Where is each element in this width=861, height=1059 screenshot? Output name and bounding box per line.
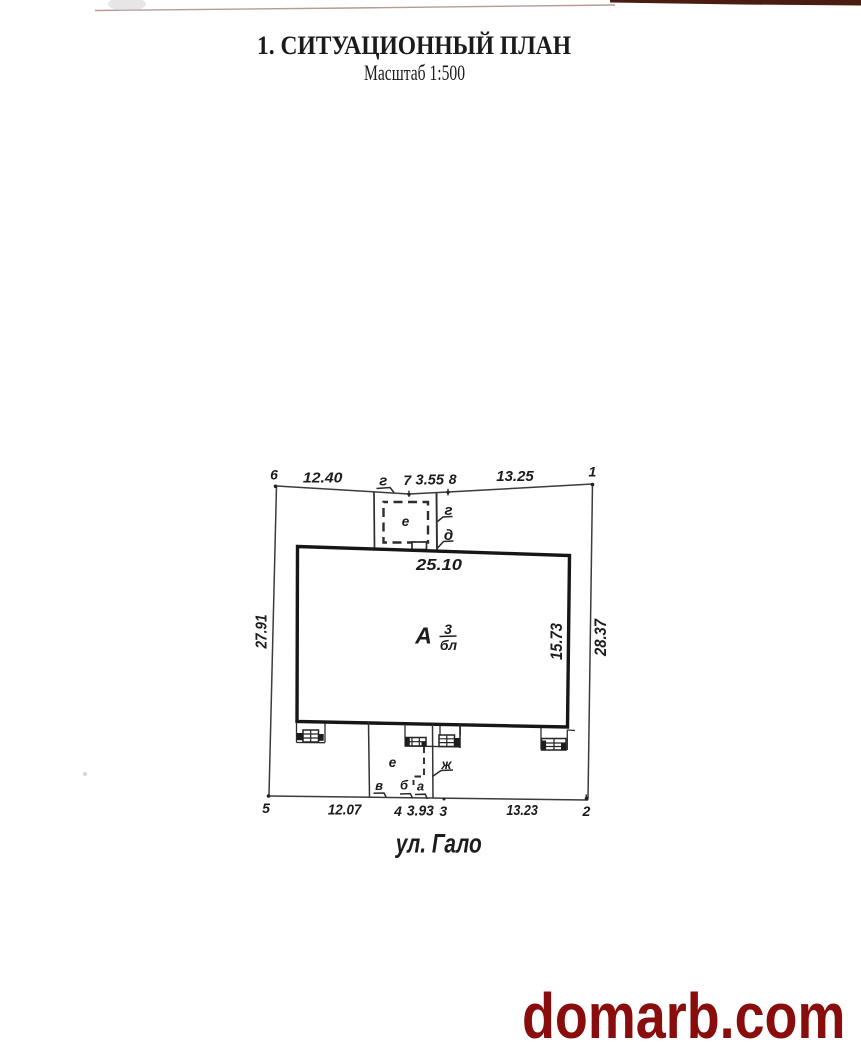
svg-text:г: г (379, 473, 387, 490)
svg-text:1. СИТУАЦИОННЫЙ ПЛАН: 1. СИТУАЦИОННЫЙ ПЛАН (257, 30, 571, 60)
svg-text:а: а (417, 779, 424, 794)
svg-text:13.23: 13.23 (506, 802, 538, 819)
svg-text:12.40: 12.40 (303, 470, 343, 487)
svg-text:Масштаб 1:500: Масштаб 1:500 (364, 60, 465, 85)
svg-text:2: 2 (582, 803, 591, 819)
svg-text:13.25: 13.25 (496, 468, 534, 485)
svg-text:1: 1 (589, 464, 597, 480)
svg-text:ж: ж (441, 757, 453, 772)
svg-text:3.55: 3.55 (416, 472, 445, 489)
svg-text:3: 3 (444, 621, 452, 637)
svg-text:12.07: 12.07 (328, 802, 362, 819)
svg-text:бл: бл (440, 637, 457, 653)
svg-text:г: г (444, 502, 452, 519)
svg-text:25.10: 25.10 (415, 557, 462, 574)
svg-text:А: А (414, 623, 432, 649)
svg-text:15.73: 15.73 (548, 623, 566, 660)
svg-text:4: 4 (393, 803, 402, 819)
svg-text:ул. Гало: ул. Гало (394, 829, 482, 859)
svg-text:3.93: 3.93 (407, 802, 435, 819)
svg-text:е: е (389, 755, 397, 770)
svg-text:б: б (400, 778, 409, 793)
svg-text:3: 3 (439, 803, 447, 819)
svg-text:7: 7 (403, 472, 412, 488)
svg-text:д: д (444, 527, 453, 544)
svg-text:в: в (375, 778, 383, 793)
svg-text:5: 5 (262, 800, 270, 816)
svg-text:6: 6 (270, 467, 278, 483)
svg-text:27.91: 27.91 (254, 614, 271, 649)
svg-text:28.37: 28.37 (592, 618, 610, 657)
svg-text:е: е (402, 514, 410, 529)
svg-text:8: 8 (449, 471, 457, 487)
